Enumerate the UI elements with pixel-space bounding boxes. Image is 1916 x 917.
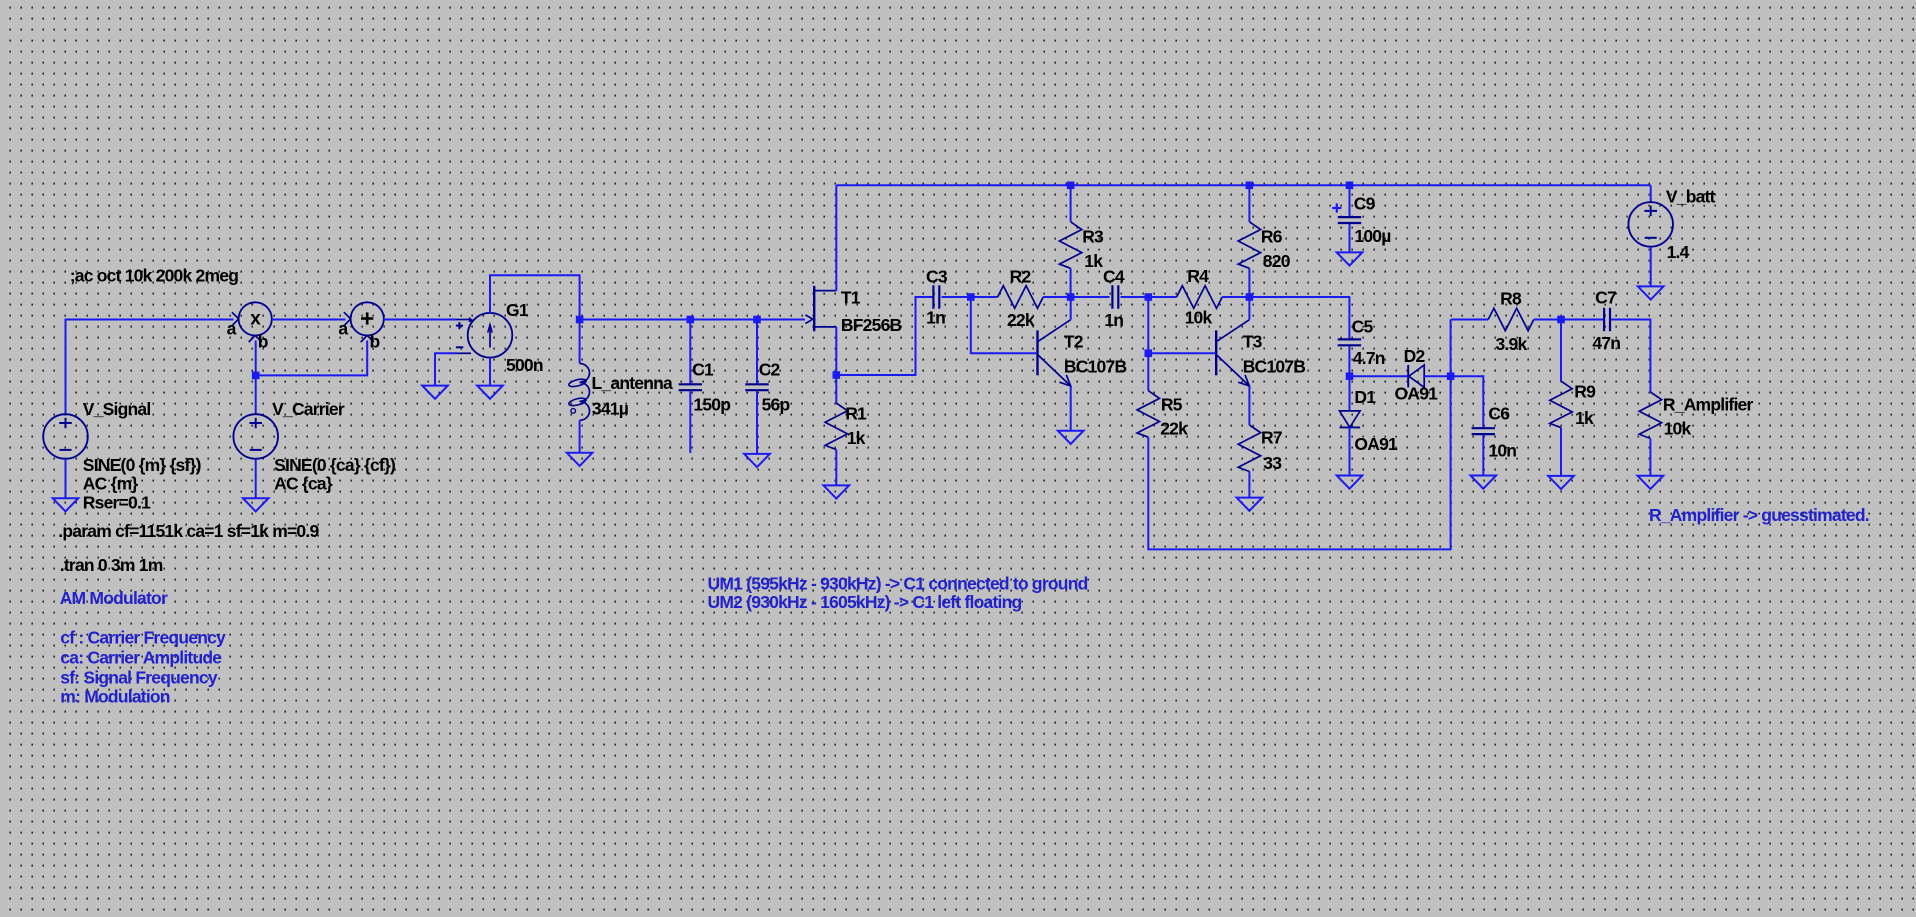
- wire R6 bottom lead: [1248, 268, 1250, 297]
- resistor R2 left lead: [971, 296, 998, 298]
- wire antenna row to T1 gate: [580, 319, 805, 321]
- wire detector node to D2: [1350, 375, 1408, 377]
- capacitor C9 (polarized): [1338, 216, 1361, 218]
- svg-text:22k: 22k: [1160, 419, 1188, 439]
- wire multiplier out to adder a: [272, 319, 346, 321]
- ground D1: [1337, 476, 1363, 489]
- svg-text:R_Amplifier -> guesstimated.: R_Amplifier -> guesstimated.: [1649, 505, 1869, 525]
- node junction R3 top rail: [1067, 182, 1075, 190]
- voltage source V_batt: [1628, 202, 1673, 247]
- svg-text:C5: C5: [1352, 316, 1374, 336]
- ground C6: [1471, 476, 1497, 489]
- wire R7 bottom lead: [1248, 472, 1250, 498]
- svg-text:OA91: OA91: [1395, 384, 1439, 404]
- resistor R4 left lead: [1148, 296, 1176, 298]
- resistor R8 left lead: [1451, 319, 1489, 321]
- resistor R6: [1238, 222, 1260, 268]
- svg-text:1k: 1k: [1084, 251, 1103, 271]
- capacitor C3: [932, 285, 934, 308]
- svg-text:C1: C1: [692, 359, 714, 379]
- capacitor C2: [745, 383, 768, 385]
- resistor R7: [1238, 425, 1260, 472]
- resistor R6 top lead: [1248, 185, 1250, 222]
- wire source node to C3: [836, 297, 932, 375]
- capacitor C7: [1603, 308, 1605, 331]
- plus marker C9: [1332, 207, 1341, 209]
- svg-text:1k: 1k: [847, 428, 866, 448]
- resistor R8: [1488, 308, 1534, 330]
- wire C5 bottom lead: [1348, 346, 1350, 376]
- svg-text:m: Modulation: m: Modulation: [60, 686, 170, 706]
- diode D2 OA91: [1407, 365, 1409, 387]
- wire V_Carrier to node b: [255, 341, 257, 415]
- wire V_Carrier bottom: [255, 459, 257, 499]
- capacitor C5: [1338, 338, 1361, 340]
- wire R1 bottom lead: [835, 450, 837, 486]
- resistor R9 top lead: [1560, 320, 1562, 382]
- capacitor C4: [1111, 285, 1113, 308]
- svg-text:1.4: 1.4: [1667, 242, 1690, 262]
- svg-text:T2: T2: [1064, 331, 1084, 351]
- wire C7 left lead: [1561, 319, 1604, 321]
- resistor R1 top lead: [835, 375, 837, 403]
- svg-text:R4: R4: [1187, 266, 1209, 286]
- svg-text:BC107B: BC107B: [1064, 357, 1127, 377]
- svg-text:R2: R2: [1010, 266, 1032, 286]
- voltage source V_Signal: [43, 414, 88, 459]
- svg-text:C2: C2: [759, 359, 781, 379]
- wire T1 source down: [835, 327, 837, 375]
- svg-text:BF256B: BF256B: [841, 315, 902, 335]
- svg-text:T1: T1: [841, 288, 861, 308]
- ground C2: [744, 454, 770, 467]
- svg-text:G1: G1: [506, 300, 529, 320]
- wire junction to adder b input: [256, 341, 368, 376]
- node junction R6 bottom: [1246, 293, 1254, 301]
- ground R1: [824, 485, 850, 498]
- resistor R4: [1177, 286, 1223, 308]
- svg-text:R9: R9: [1574, 382, 1596, 402]
- node junction R8/C7/R9: [1557, 316, 1565, 324]
- node junction after C3: [967, 293, 975, 301]
- wire T2 emitter down: [1070, 386, 1072, 431]
- svg-text:L_antenna: L_antenna: [592, 373, 674, 393]
- node junction antenna: [576, 316, 584, 324]
- wire G1 output bottom: [489, 358, 491, 386]
- svg-text:SINE(0 {m} {sf}): SINE(0 {m} {sf}): [83, 455, 201, 475]
- svg-text:b: b: [258, 332, 268, 352]
- svg-text:10k: 10k: [1185, 308, 1213, 328]
- ground G1 output: [477, 386, 503, 399]
- resistor R1: [825, 403, 847, 450]
- svg-text:4.7n: 4.7n: [1353, 348, 1385, 368]
- svg-text:500n: 500n: [506, 355, 543, 375]
- wire C2 top lead: [756, 320, 758, 384]
- wire T3 collector: [1248, 297, 1250, 320]
- wire adder out to G1 control+: [384, 319, 457, 321]
- node junction C1: [687, 316, 695, 324]
- svg-text:;ac oct 10k 200k 2meg: ;ac oct 10k 200k 2meg: [70, 265, 239, 285]
- wire V_Signal to multiplier a input: [66, 320, 234, 415]
- wire R4 right lead: [1222, 296, 1249, 298]
- ground V_Signal: [53, 498, 79, 511]
- diode D1 OA91: [1340, 411, 1361, 428]
- svg-text:R_Amplifier: R_Amplifier: [1663, 394, 1754, 414]
- wire C1 bottom lead (floating): [689, 391, 691, 453]
- wire D1 bottom lead: [1349, 427, 1351, 475]
- npn transistor T3 BC107B: [1215, 330, 1217, 375]
- svg-text:47n: 47n: [1592, 333, 1620, 353]
- svg-text:x: x: [250, 309, 261, 330]
- ground C9: [1337, 252, 1363, 265]
- resistor R5: [1137, 391, 1159, 438]
- ground R7: [1237, 498, 1263, 511]
- svg-text:R3: R3: [1082, 226, 1104, 246]
- wire Vcc top rail: [836, 184, 1650, 186]
- wire T3 emitter to R7: [1248, 386, 1250, 425]
- svg-text:10n: 10n: [1488, 440, 1516, 460]
- wire R8 right lead: [1534, 319, 1561, 321]
- ground R_Amplifier: [1638, 476, 1664, 489]
- wire T2 collector: [1070, 297, 1072, 320]
- node junction detector: [1346, 372, 1354, 380]
- wire to T2 base: [971, 297, 1037, 353]
- svg-text:SINE(0 {ca} {cf}): SINE(0 {ca} {cf}): [274, 455, 395, 475]
- svg-text:10k: 10k: [1664, 418, 1692, 438]
- ground L_antenna: [567, 453, 593, 466]
- svg-text:AM Modulator: AM Modulator: [60, 588, 168, 608]
- svg-text:T3: T3: [1243, 331, 1263, 351]
- svg-text:341µ: 341µ: [592, 398, 629, 418]
- wire V_batt bottom: [1650, 247, 1652, 287]
- svg-text:D2: D2: [1404, 346, 1426, 366]
- wire C9 top lead: [1349, 185, 1351, 216]
- wire antenna node down: [579, 320, 581, 364]
- wire R5 bottom to detector return: [1148, 320, 1450, 550]
- wire R9 bottom lead: [1560, 428, 1562, 476]
- svg-text:V_Signal: V_Signal: [83, 399, 151, 419]
- svg-text:R1: R1: [845, 403, 867, 423]
- resistor R3 top lead: [1070, 185, 1072, 222]
- svg-text:1n: 1n: [926, 308, 945, 328]
- svg-text:UM1 (595kHz - 930kHz) -> C1 co: UM1 (595kHz - 930kHz) -> C1 connected to…: [708, 573, 1088, 593]
- wire output node to C6: [1451, 376, 1484, 427]
- wire D2 to output node: [1424, 375, 1450, 377]
- svg-text:C9: C9: [1354, 193, 1376, 213]
- npn transistor T2 BC107B: [1036, 330, 1038, 375]
- wire V_Signal bottom: [65, 459, 67, 499]
- node junction T1 source: [833, 371, 841, 379]
- wire C6 bottom lead: [1482, 435, 1484, 475]
- wire G1 minus to ground: [435, 353, 457, 385]
- wire V_batt top: [1650, 185, 1652, 202]
- svg-text:AC {ca}: AC {ca}: [274, 473, 333, 493]
- ground V_batt: [1638, 286, 1664, 299]
- svg-text:C6: C6: [1488, 404, 1510, 424]
- svg-text:ca: Carrier Amplitude: ca: Carrier Amplitude: [60, 648, 222, 668]
- svg-text:sf: Signal Frequency: sf: Signal Frequency: [60, 667, 218, 687]
- svg-text:OA91: OA91: [1354, 434, 1398, 454]
- ground T2 emitter: [1058, 431, 1084, 444]
- svg-text:100µ: 100µ: [1354, 226, 1391, 246]
- svg-text:Rser=0.1: Rser=0.1: [83, 493, 151, 513]
- node junction R6 top rail: [1246, 182, 1254, 190]
- svg-text:R6: R6: [1261, 226, 1283, 246]
- vccs G1: [468, 313, 513, 358]
- wire R3 bottom lead: [1070, 268, 1072, 297]
- node junction C2: [753, 316, 761, 324]
- wire C9 bottom lead: [1349, 224, 1351, 252]
- svg-text:22k: 22k: [1007, 310, 1035, 330]
- wire L_antenna bottom: [579, 420, 581, 452]
- svg-text:b: b: [370, 332, 380, 352]
- svg-text:a: a: [338, 319, 348, 339]
- svg-text:3.9k: 3.9k: [1496, 334, 1528, 354]
- node junction V_Carrier / adder b: [252, 372, 260, 380]
- capacitor C4 left lead: [1071, 296, 1110, 298]
- svg-text:D1: D1: [1354, 387, 1376, 407]
- svg-text:1k: 1k: [1575, 408, 1594, 428]
- wire T1 drain to top rail: [835, 185, 837, 290]
- svg-text:56p: 56p: [762, 394, 790, 414]
- wire collector node to C5: [1249, 297, 1349, 339]
- wire R_Amplifier bottom lead: [1649, 439, 1651, 476]
- wire C2 bottom lead: [756, 391, 758, 454]
- svg-text:AC {m}: AC {m}: [83, 473, 139, 493]
- svg-text:R5: R5: [1161, 395, 1183, 415]
- node junction T3 base: [1145, 349, 1153, 357]
- capacitor C1: [679, 383, 702, 385]
- resistor R_Amplifier: [1639, 392, 1661, 439]
- resistor R9: [1550, 381, 1572, 428]
- svg-text:150p: 150p: [693, 394, 730, 414]
- svg-text:C3: C3: [926, 266, 948, 286]
- wire C3 right lead: [942, 296, 971, 298]
- svg-text:BC107B: BC107B: [1243, 357, 1306, 377]
- inductor L_antenna: [580, 363, 590, 382]
- wire G1 output top to antenna node: [490, 275, 580, 319]
- svg-text:.param cf=1151k ca=1 sf=1k m=0: .param cf=1151k ca=1 sf=1k m=0.9: [58, 521, 319, 541]
- svg-text:C7: C7: [1595, 288, 1616, 308]
- wire down to T3 base node: [1147, 297, 1149, 391]
- wire C4 right lead: [1121, 296, 1149, 298]
- svg-text:.tran 0 3m 1m: .tran 0 3m 1m: [60, 555, 163, 575]
- ground R9: [1548, 476, 1574, 489]
- wire D1 top lead: [1349, 376, 1351, 411]
- svg-text:820: 820: [1263, 251, 1291, 271]
- ground G1 control: [422, 386, 448, 399]
- svg-text:R8: R8: [1500, 288, 1522, 308]
- svg-text:1n: 1n: [1104, 310, 1123, 330]
- resistor R3: [1059, 222, 1081, 268]
- wire R2 right lead: [1043, 296, 1070, 298]
- svg-text:V_batt: V_batt: [1666, 187, 1716, 207]
- svg-text:R7: R7: [1261, 428, 1282, 448]
- svg-text:C4: C4: [1103, 266, 1125, 286]
- svg-text:33: 33: [1263, 453, 1282, 473]
- svg-text:cf : Carrier Frequency: cf : Carrier Frequency: [60, 628, 226, 648]
- node junction D2 output: [1447, 372, 1455, 380]
- svg-text:UM2 (930kHz - 1605kHz) -> C1 l: UM2 (930kHz - 1605kHz) -> C1 left floati…: [708, 592, 1022, 612]
- ground V_Carrier: [243, 498, 269, 511]
- svg-text:V_Carrier: V_Carrier: [272, 399, 345, 419]
- svg-text:a: a: [227, 319, 237, 339]
- adder U2 (+): [351, 302, 384, 335]
- node junction R3 bottom: [1067, 293, 1075, 301]
- node junction C4 right: [1145, 293, 1153, 301]
- voltage source V_Carrier: [233, 414, 278, 459]
- jfet T1 BF256B: [813, 286, 815, 331]
- node junction C9 rail: [1346, 182, 1354, 190]
- capacitor C6: [1472, 427, 1495, 429]
- wire C7 right lead to R_Amplifier: [1611, 320, 1650, 393]
- wire C1 top lead: [689, 320, 691, 384]
- multiplier U1 (x): [239, 302, 272, 335]
- wire to T3 base: [1148, 352, 1215, 354]
- resistor R2: [998, 286, 1044, 308]
